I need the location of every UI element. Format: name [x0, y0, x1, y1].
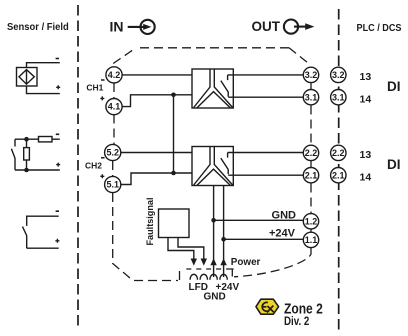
svg-text:3.1: 3.1 — [305, 92, 318, 102]
wire +24V to 1.1 — [224, 238, 304, 240]
terminal cup +24V — [220, 274, 227, 279]
terminal cup GND2 — [210, 274, 217, 279]
terminal 3.2 plc — [331, 67, 346, 82]
terminal row line — [186, 268, 233, 270]
junction node CH2 — [171, 171, 176, 176]
svg-text:PLC / DCS: PLC / DCS — [357, 23, 402, 34]
svg-text:14: 14 — [360, 94, 372, 106]
wire 5.2 to isolator 2 — [120, 152, 192, 154]
svg-text:GND: GND — [204, 292, 226, 303]
switch contact S2 — [11, 139, 15, 170]
svg-text:DI: DI — [387, 79, 401, 94]
OUT arrow symbol — [284, 20, 315, 34]
terminal cup GND1 — [200, 274, 207, 279]
resistor R2 (parallel, vertical) — [26, 139, 28, 147]
minus sign S1 — [56, 58, 59, 60]
wire isolator2 out to 2.2 — [228, 152, 304, 154]
junction node +24V — [221, 237, 226, 242]
sensor S3 switch : minus wire — [27, 216, 59, 226]
plus sign S2 — [56, 163, 60, 167]
resistor R1 (series, horizontal) — [39, 137, 53, 142]
svg-text:IN: IN — [110, 19, 124, 35]
sensor S1 proximity switch box — [17, 68, 38, 87]
wire isolator1 out to 3.1 — [228, 96, 303, 98]
isolator U1 chevron — [197, 92, 231, 108]
svg-text:5.1: 5.1 — [106, 180, 119, 190]
zone separator right (dashed) — [338, 9, 340, 333]
isolator U1 output contact — [221, 75, 228, 97]
isolator U1 barrier symbol — [194, 69, 233, 108]
wire S3 plus — [27, 247, 59, 249]
Ex logo x — [267, 306, 274, 313]
junction dot S2 top — [24, 137, 29, 142]
wire 4.1 to isolator 1 — [122, 95, 192, 107]
wire S1 minus — [27, 63, 60, 68]
terminal 2.2 plc — [331, 145, 346, 160]
zone separator left (dashed) — [77, 5, 79, 330]
svg-text:2.2: 2.2 — [332, 148, 345, 158]
junction node CH1 — [171, 93, 176, 98]
terminal 5.1 — [105, 176, 121, 192]
isolator U1 (CH1) box — [192, 69, 233, 108]
svg-text:Power: Power — [231, 257, 261, 268]
terminal cup LFD — [190, 274, 197, 279]
terminal 1.1 — [303, 232, 318, 247]
wire common vertical CH1-CH2 — [173, 95, 175, 173]
plus sign CH1 — [100, 96, 104, 100]
sensor S2 contact with resistors : top wire — [15, 138, 60, 140]
wire S2 plus — [15, 169, 60, 171]
sensor S1 diamond — [19, 70, 34, 85]
arrow down fault GND — [201, 259, 207, 266]
junction node GND — [211, 218, 216, 223]
arrow up GND — [210, 258, 216, 265]
isolator U2 chevron — [197, 169, 231, 185]
device outline (dashed) top edge — [113, 48, 311, 281]
svg-text:4.1: 4.1 — [108, 102, 121, 112]
minus sign S3 — [56, 210, 59, 212]
Ex logo epsilon — [262, 302, 268, 311]
svg-text:5.2: 5.2 — [106, 148, 119, 158]
svg-text:13: 13 — [360, 149, 372, 161]
minus sign S2 — [56, 133, 59, 135]
terminal 4.1 — [106, 99, 122, 115]
terminal 5.2 — [105, 144, 121, 160]
svg-text:Faultsignal: Faultsignal — [145, 198, 156, 246]
device outline bottom right curve — [234, 248, 311, 277]
svg-text:3.2: 3.2 — [305, 70, 318, 80]
terminal 3.1 device — [303, 90, 318, 105]
svg-text:CH1: CH1 — [86, 82, 103, 92]
wire 4.2 to isolator 1 — [122, 74, 192, 76]
plus sign S1 — [56, 85, 60, 89]
wire 5.1 to isolator 2 — [120, 173, 192, 185]
svg-text:1.2: 1.2 — [305, 216, 318, 226]
terminal 2.1 plc — [331, 168, 346, 183]
wire isolator1 out to 3.2 — [228, 74, 304, 76]
junction dot S2 bottom — [24, 168, 29, 173]
svg-text:1.1: 1.1 — [305, 235, 318, 245]
minus sign CH2 — [101, 157, 105, 159]
svg-text:3.2: 3.2 — [332, 70, 345, 80]
svg-text:4.2: 4.2 — [108, 70, 121, 80]
terminal 3.2 device — [303, 67, 318, 82]
svg-text:2.1: 2.1 — [305, 170, 318, 180]
svg-text:13: 13 — [360, 71, 372, 83]
svg-text:14: 14 — [360, 172, 372, 184]
svg-text:2.1: 2.1 — [332, 170, 345, 180]
terminal 2.1 device — [303, 168, 318, 183]
terminal 4.2 — [106, 67, 122, 83]
IN arrow symbol — [128, 20, 155, 34]
svg-text:Sensor / Field: Sensor / Field — [7, 21, 69, 33]
svg-text:GND: GND — [272, 209, 297, 221]
svg-text:Div. 2: Div. 2 — [284, 316, 309, 328]
wire GND to 1.2 — [214, 219, 304, 221]
faultsignal box — [159, 209, 190, 238]
terminal 3.1 plc — [331, 90, 346, 105]
arrow down LFD — [191, 259, 197, 266]
svg-text:DI: DI — [387, 157, 401, 172]
device outline left terminal column — [113, 83, 115, 98]
isolator U2 output contact — [221, 153, 228, 175]
svg-text:3.1: 3.1 — [332, 92, 345, 102]
terminal 1.2 — [303, 214, 318, 229]
switch contact S3 — [23, 227, 27, 249]
wire isolator2 out to 2.1 — [228, 174, 303, 176]
svg-text:CH2: CH2 — [85, 160, 102, 170]
wire power +24V vertical — [223, 186, 225, 278]
isolator U2 (CH2) box — [192, 147, 233, 186]
svg-text:+24V: +24V — [269, 228, 296, 240]
plus sign S3 — [55, 239, 59, 243]
minus sign CH1 — [101, 79, 105, 81]
wire fault GND — [178, 238, 204, 260]
terminal 2.2 device — [303, 145, 318, 160]
wire S1 plus — [27, 86, 60, 94]
device outline right terminal column — [310, 83, 312, 90]
Ex logo hexagon — [256, 299, 279, 314]
isolator U2 barrier symbol — [194, 147, 233, 186]
plus sign CH2 — [100, 174, 104, 178]
svg-text:2.2: 2.2 — [305, 148, 318, 158]
wire power GND vertical — [213, 186, 215, 278]
arrow up +24V — [220, 258, 226, 265]
wire fault LFD — [168, 238, 194, 260]
svg-text:OUT: OUT — [252, 19, 281, 34]
